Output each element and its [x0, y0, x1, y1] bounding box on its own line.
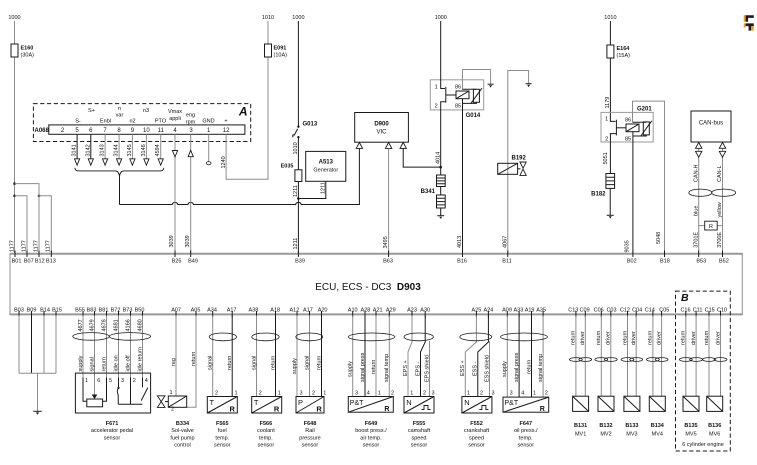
svg-text:R: R: [274, 404, 280, 413]
svg-text:A20: A20: [318, 307, 328, 313]
svg-text:1: 1: [435, 85, 438, 91]
svg-text:B341: B341: [421, 189, 436, 195]
svg-text:camshaft: camshaft: [408, 428, 431, 434]
svg-text:eng: eng: [186, 113, 195, 119]
svg-text:1000: 1000: [8, 15, 20, 21]
svg-text:driver: driver: [691, 331, 697, 345]
svg-text:appli: appli: [169, 116, 181, 122]
svg-text:C12: C12: [620, 307, 630, 313]
svg-text:B182: B182: [591, 191, 606, 197]
svg-text:B02: B02: [627, 259, 637, 265]
svg-text:2: 2: [312, 390, 315, 396]
svg-text:A33: A33: [514, 307, 524, 313]
svg-text:3144: 3144: [114, 144, 120, 156]
svg-text:signal: signal: [89, 357, 95, 371]
svg-text:5048: 5048: [656, 232, 662, 244]
svg-text:2: 2: [480, 390, 483, 396]
svg-text:R: R: [709, 224, 713, 230]
svg-text:B131: B131: [574, 423, 587, 429]
svg-text:var: var: [116, 112, 124, 118]
svg-text:F648: F648: [304, 421, 317, 427]
svg-text:1: 1: [170, 390, 173, 396]
svg-text:C05: C05: [659, 307, 669, 313]
svg-text:1: 1: [378, 390, 381, 396]
svg-text:4678: 4678: [101, 319, 107, 331]
svg-text:1: 1: [278, 390, 281, 396]
svg-text:oil press./: oil press./: [514, 428, 538, 434]
svg-text:F671: F671: [106, 421, 119, 427]
svg-text:A513: A513: [319, 160, 334, 166]
svg-text:B133: B133: [625, 423, 638, 429]
svg-text:B11: B11: [502, 259, 511, 265]
svg-text:4014: 4014: [436, 152, 442, 164]
svg-text:EPS shield: EPS shield: [424, 355, 430, 382]
svg-text:PTO: PTO: [155, 119, 167, 125]
svg-text:N: N: [464, 398, 469, 407]
svg-text:A34: A34: [207, 307, 217, 313]
svg-text:C15: C15: [705, 307, 715, 313]
svg-text:blue: blue: [693, 206, 699, 216]
svg-text:driver: driver: [631, 331, 637, 345]
svg-text:A17: A17: [227, 307, 237, 313]
svg-text:A21: A21: [373, 307, 383, 313]
svg-text:boost press./: boost press./: [355, 428, 387, 434]
svg-text:C11: C11: [693, 307, 703, 313]
svg-text:supply: supply: [348, 361, 354, 377]
svg-text:A29: A29: [386, 307, 396, 313]
svg-text:4: 4: [521, 391, 524, 397]
svg-text:R: R: [316, 404, 322, 413]
svg-text:3146: 3146: [141, 144, 147, 156]
svg-text:C09: C09: [580, 307, 590, 313]
svg-text:1: 1: [605, 117, 608, 123]
svg-text:Rail: Rail: [305, 428, 314, 434]
svg-text:G013: G013: [303, 121, 318, 127]
svg-text:temp.: temp.: [259, 435, 273, 441]
svg-text:4679: 4679: [89, 319, 95, 331]
svg-text:3: 3: [300, 390, 303, 396]
svg-text:B16: B16: [457, 259, 467, 265]
svg-text:speed: speed: [469, 435, 484, 441]
svg-text:sensor: sensor: [104, 435, 121, 441]
svg-text:3: 3: [355, 390, 358, 396]
svg-text:B134: B134: [651, 423, 665, 429]
svg-text:B53: B53: [696, 259, 706, 265]
svg-text:sensor: sensor: [468, 443, 485, 449]
svg-text:ECU, ECS - DC3 D903: ECU, ECS - DC3 D903: [315, 282, 421, 293]
svg-text:signal temp: signal temp: [384, 354, 390, 382]
svg-text:B14: B14: [40, 307, 50, 313]
svg-text:MV1: MV1: [575, 432, 586, 438]
svg-text:1: 1: [410, 390, 413, 396]
svg-text:MV4: MV4: [652, 432, 663, 438]
svg-text:1010: 1010: [293, 142, 299, 154]
svg-text:T: T: [210, 398, 215, 407]
svg-text:B136: B136: [708, 423, 721, 429]
svg-text:S+: S+: [88, 108, 95, 114]
svg-text:reg: reg: [171, 358, 177, 366]
svg-text:supply: supply: [78, 355, 84, 371]
svg-text:B334: B334: [176, 421, 190, 427]
svg-text:G201: G201: [637, 107, 652, 113]
svg-text:control: control: [174, 443, 191, 449]
svg-text:speed: speed: [412, 435, 427, 441]
svg-text:R: R: [384, 406, 389, 413]
svg-text:F566: F566: [260, 421, 273, 427]
svg-text:+: +: [224, 119, 227, 125]
svg-text:3: 3: [492, 390, 495, 396]
svg-text:1000: 1000: [435, 15, 447, 21]
svg-text:5: 5: [109, 378, 112, 384]
svg-text:CAN-H: CAN-H: [693, 165, 699, 182]
svg-text:1: 1: [323, 390, 326, 396]
svg-text:return: return: [622, 331, 628, 345]
svg-text:1177: 1177: [46, 240, 52, 252]
svg-text:P&T: P&T: [505, 400, 519, 407]
svg-text:yellow: yellow: [717, 202, 723, 217]
svg-text:sensor: sensor: [258, 443, 275, 449]
svg-text:supply: supply: [292, 358, 298, 374]
svg-text:1177: 1177: [33, 240, 39, 252]
svg-text:MV2: MV2: [600, 432, 611, 438]
svg-text:supply: supply: [502, 361, 508, 377]
svg-text:temp.: temp.: [519, 435, 533, 441]
svg-text:1: 1: [235, 390, 238, 396]
svg-text:sensor: sensor: [411, 443, 428, 449]
svg-text:B13: B13: [46, 259, 56, 265]
svg-text:sensor: sensor: [363, 443, 380, 449]
svg-text:return: return: [191, 352, 197, 366]
svg-text:B52: B52: [719, 259, 729, 265]
svg-text:85: 85: [625, 137, 631, 143]
svg-text:1010: 1010: [262, 15, 274, 21]
svg-text:1211: 1211: [293, 185, 299, 197]
svg-text:n: n: [118, 106, 121, 112]
svg-text:1240: 1240: [221, 156, 227, 168]
svg-text:return: return: [681, 331, 687, 345]
svg-text:F555: F555: [413, 421, 426, 427]
svg-text:P: P: [298, 398, 303, 407]
svg-text:B132: B132: [599, 423, 612, 429]
svg-text:return: return: [648, 331, 654, 345]
svg-text:Generator: Generator: [313, 168, 338, 174]
svg-text:accelerator pedal: accelerator pedal: [91, 428, 133, 434]
svg-text:return: return: [704, 331, 710, 345]
svg-text:idle on: idle on: [113, 355, 119, 371]
svg-text:R: R: [540, 406, 545, 413]
svg-text:(30A): (30A): [21, 53, 35, 59]
svg-text:return: return: [371, 360, 377, 374]
svg-text:2: 2: [545, 391, 548, 397]
svg-text:return: return: [101, 357, 107, 371]
svg-text:EPS +: EPS +: [403, 360, 409, 376]
svg-text:4067: 4067: [502, 236, 508, 248]
svg-text:D900: D900: [374, 122, 389, 128]
svg-text:MV6: MV6: [709, 432, 720, 438]
svg-text:sensor: sensor: [302, 443, 319, 449]
svg-text:signal press: signal press: [360, 352, 366, 382]
svg-text:signal: signal: [208, 356, 214, 370]
svg-text:9035: 9035: [624, 240, 630, 252]
svg-text:1211: 1211: [320, 182, 326, 194]
svg-text:2: 2: [133, 378, 136, 384]
svg-text:3143: 3143: [100, 144, 106, 156]
svg-text:VIC: VIC: [376, 130, 387, 136]
svg-text:4681: 4681: [113, 319, 119, 331]
svg-text:85: 85: [455, 104, 461, 110]
svg-text:C13: C13: [568, 307, 578, 313]
svg-text:return: return: [596, 331, 602, 345]
svg-text:ESS shield: ESS shield: [484, 355, 490, 382]
svg-text:P&T: P&T: [350, 400, 364, 407]
svg-text:3: 3: [121, 378, 124, 384]
svg-text:2: 2: [435, 104, 438, 110]
svg-text:(10A): (10A): [274, 53, 288, 59]
svg-text:F647: F647: [520, 421, 533, 427]
svg-text:S-: S-: [75, 119, 81, 125]
svg-text:10: 10: [143, 128, 150, 134]
svg-text:3701E: 3701E: [693, 232, 699, 248]
svg-text:F649: F649: [365, 421, 378, 427]
svg-text:E164: E164: [617, 46, 631, 52]
svg-text:C04: C04: [632, 307, 642, 313]
svg-text:(15A): (15A): [617, 53, 631, 59]
svg-text:A12: A12: [290, 307, 300, 313]
svg-text:signal temp: signal temp: [538, 354, 544, 382]
svg-text:driver: driver: [656, 331, 662, 345]
svg-text:1000: 1000: [292, 15, 304, 21]
svg-text:crankshaft: crankshaft: [464, 428, 490, 434]
svg-text:A35: A35: [536, 307, 546, 313]
svg-text:2: 2: [391, 390, 394, 396]
svg-text:A068: A068: [35, 128, 50, 134]
svg-text:1177: 1177: [9, 240, 15, 252]
svg-text:rpm: rpm: [186, 120, 196, 126]
svg-text:coolant: coolant: [257, 428, 275, 434]
svg-text:86: 86: [625, 118, 631, 124]
svg-text:1179: 1179: [605, 97, 611, 109]
svg-text:4677: 4677: [78, 319, 84, 331]
svg-text:signal: signal: [304, 356, 310, 370]
svg-text:signal: signal: [251, 356, 257, 370]
svg-text:4013: 4013: [457, 236, 463, 248]
svg-text:12: 12: [223, 128, 230, 134]
svg-text:G014: G014: [466, 113, 481, 119]
svg-text:idle off: idle off: [125, 355, 131, 372]
svg-text:3039: 3039: [169, 235, 175, 247]
svg-text:R: R: [230, 404, 236, 413]
svg-text:return: return: [270, 356, 276, 370]
svg-text:E035: E035: [281, 164, 294, 170]
svg-text:B39: B39: [295, 259, 305, 265]
svg-text:EPS -: EPS -: [415, 361, 421, 376]
svg-text:return: return: [227, 356, 233, 370]
svg-text:3142: 3142: [85, 144, 91, 156]
svg-text:E160: E160: [21, 46, 34, 52]
svg-text:return: return: [316, 356, 322, 370]
svg-text:B: B: [681, 292, 689, 304]
svg-text:sensor: sensor: [214, 443, 231, 449]
svg-text:3: 3: [432, 390, 435, 396]
svg-text:4680: 4680: [137, 319, 143, 331]
svg-text:temp.: temp.: [215, 435, 229, 441]
svg-text:fuel pump: fuel pump: [170, 435, 194, 441]
svg-text:B07: B07: [24, 259, 34, 265]
svg-text:B192: B192: [512, 156, 527, 162]
svg-text:4594: 4594: [155, 144, 161, 156]
svg-text:B25: B25: [172, 259, 182, 265]
svg-text:4166: 4166: [125, 319, 131, 331]
svg-text:C10: C10: [717, 307, 727, 313]
svg-text:fuel: fuel: [218, 428, 227, 434]
svg-text:A: A: [238, 105, 248, 119]
svg-text:4: 4: [367, 390, 370, 396]
svg-text:MV5: MV5: [685, 432, 696, 438]
svg-text:1: 1: [533, 391, 536, 397]
svg-text:n2: n2: [129, 119, 135, 125]
svg-text:2: 2: [215, 390, 218, 396]
svg-text:F565: F565: [216, 421, 229, 427]
svg-text:3495: 3495: [383, 236, 389, 248]
svg-text:B63: B63: [383, 259, 393, 265]
svg-text:2: 2: [423, 390, 426, 396]
svg-text:CAN-L: CAN-L: [717, 165, 723, 182]
svg-text:ESS +: ESS +: [460, 360, 466, 376]
svg-text:T: T: [254, 398, 259, 407]
svg-text:F552: F552: [470, 421, 483, 427]
svg-text:C03: C03: [606, 307, 616, 313]
svg-text:return: return: [526, 360, 532, 374]
svg-text:5051: 5051: [603, 152, 609, 164]
svg-text:B15: B15: [52, 307, 62, 313]
svg-text:6: 6: [97, 378, 100, 384]
svg-text:B18: B18: [660, 259, 670, 265]
svg-text:GND: GND: [202, 119, 214, 125]
svg-text:driver: driver: [606, 331, 612, 345]
svg-text:3141: 3141: [72, 144, 78, 156]
svg-text:A17: A17: [303, 307, 313, 313]
svg-text:MV3: MV3: [626, 432, 637, 438]
svg-text:A19: A19: [525, 307, 535, 313]
svg-text:CAN-bus: CAN-bus: [699, 121, 723, 127]
svg-text:2: 2: [259, 390, 262, 396]
svg-text:B12: B12: [35, 259, 45, 265]
svg-text:N: N: [406, 398, 411, 407]
svg-text:3: 3: [510, 391, 513, 397]
svg-text:return: return: [571, 331, 577, 345]
svg-text:B49: B49: [188, 259, 198, 265]
svg-text:Enbl: Enbl: [100, 119, 111, 125]
svg-text:Vmax: Vmax: [168, 109, 182, 115]
svg-text:C06: C06: [594, 307, 604, 313]
svg-text:idle return: idle return: [137, 347, 143, 371]
svg-text:air temp.: air temp.: [360, 435, 382, 441]
svg-text:driver: driver: [580, 331, 586, 345]
svg-text:pressure: pressure: [299, 435, 320, 441]
svg-text:signal press: signal press: [514, 352, 520, 382]
svg-text:sensor: sensor: [518, 443, 535, 449]
svg-text:1211: 1211: [293, 238, 299, 250]
svg-text:ESS -: ESS -: [473, 361, 479, 376]
svg-text:Sol-valve: Sol-valve: [171, 428, 194, 434]
svg-text:2: 2: [605, 136, 608, 142]
svg-text:n3: n3: [143, 108, 149, 114]
svg-text:B135: B135: [684, 423, 697, 429]
svg-text:E091: E091: [274, 46, 287, 52]
svg-text:3700E: 3700E: [717, 232, 723, 248]
svg-text:86: 86: [455, 85, 461, 91]
svg-text:1177: 1177: [21, 240, 27, 252]
svg-text:3145: 3145: [127, 144, 133, 156]
svg-text:1: 1: [467, 390, 470, 396]
svg-text:6 cylinder engine: 6 cylinder engine: [682, 442, 724, 448]
svg-text:4: 4: [145, 378, 148, 384]
svg-text:3039: 3039: [185, 235, 191, 247]
svg-text:1010: 1010: [604, 15, 616, 21]
svg-text:B01: B01: [12, 259, 22, 265]
svg-text:11: 11: [158, 128, 165, 134]
svg-text:1: 1: [85, 378, 88, 384]
svg-text:driver: driver: [715, 331, 721, 345]
